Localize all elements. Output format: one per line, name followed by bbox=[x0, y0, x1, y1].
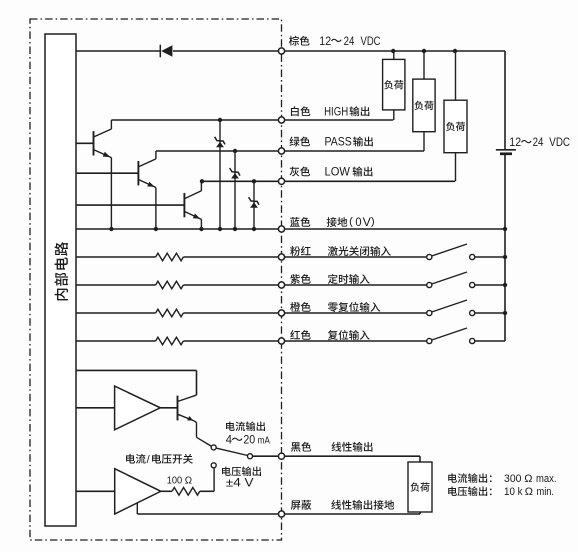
label 负荷 LOAD4 bbox=[410, 482, 429, 491]
label 橙色 零复位输入 bbox=[290, 302, 380, 312]
svg-text:min.: min. bbox=[537, 486, 555, 498]
switch S3 bbox=[427, 300, 505, 316]
label 电流输出 4~20 mA bbox=[226, 421, 270, 446]
load LOAD1 bbox=[383, 51, 405, 120]
battery B1 12-24VDC bbox=[496, 51, 516, 341]
wire U1 input bbox=[76, 407, 115, 409]
wire Q3 base bbox=[76, 204, 184, 206]
switch S2 bbox=[427, 272, 505, 288]
label 紫色 定时输入 bbox=[290, 274, 369, 284]
wire S5 pole to black terminal bbox=[253, 455, 282, 457]
svg-text:4: 4 bbox=[226, 435, 233, 447]
label 屏蔽 线性输出接地 bbox=[291, 500, 394, 510]
label note 电压输出: 10kohm min bbox=[448, 486, 554, 498]
label 电流/电压开关 bbox=[126, 454, 193, 466]
transistor Q2 bbox=[138, 151, 158, 231]
transistor Q4 bbox=[178, 395, 212, 446]
label 绿色 PASS输出 bbox=[290, 137, 373, 149]
label 负荷 LOAD3 bbox=[446, 122, 465, 131]
resistor R4 bbox=[156, 337, 184, 345]
label 棕色 12~24 VDC bbox=[289, 36, 381, 48]
svg-text:100: 100 bbox=[167, 475, 183, 486]
wire shield line bbox=[137, 513, 420, 515]
op-amp U2 bbox=[115, 469, 161, 514]
wire violet timing input line bbox=[76, 284, 427, 286]
node battery rail junctions bbox=[503, 227, 507, 315]
svg-text:V: V bbox=[363, 217, 372, 229]
zener diode ZD3 bbox=[249, 197, 259, 208]
diode D1 on brown line bbox=[160, 45, 172, 58]
switch S5 current/voltage bbox=[211, 445, 252, 468]
svg-text:12: 12 bbox=[319, 36, 331, 48]
svg-text:24: 24 bbox=[533, 137, 544, 149]
label 蓝色 接地(0V) bbox=[290, 217, 374, 229]
svg-text:VDC: VDC bbox=[549, 137, 570, 149]
node: load taps on brown line bbox=[391, 49, 457, 53]
load LOAD2 bbox=[413, 51, 435, 151]
label 负荷 LOAD2 bbox=[414, 101, 433, 110]
svg-text:PASS: PASS bbox=[325, 137, 353, 149]
svg-text:0: 0 bbox=[355, 217, 361, 229]
svg-text:24: 24 bbox=[344, 36, 355, 48]
label 红色 复位输入 bbox=[290, 330, 369, 340]
label battery 12~24 VDC bbox=[509, 137, 570, 149]
svg-text:12: 12 bbox=[509, 137, 521, 149]
wire blue 0V line bbox=[76, 228, 505, 230]
wire U2 ref tap to shield line bbox=[136, 503, 138, 514]
resistor R3 bbox=[156, 309, 184, 317]
resistor R5 100ohm bbox=[172, 488, 200, 496]
switch S4 bbox=[427, 328, 505, 344]
wire red reset input line bbox=[76, 340, 427, 342]
wire white HIGH output line bbox=[111, 119, 393, 121]
wire shield stub to load bbox=[419, 512, 421, 514]
label 内部电路 (internal circuit, vertical) bbox=[54, 242, 68, 300]
sensor outline dash-dot border bbox=[30, 19, 282, 540]
wire U2 input bbox=[76, 490, 115, 492]
label note 电流输出: 300ohm max bbox=[448, 473, 556, 485]
resistor R1 bbox=[156, 253, 184, 261]
svg-text:VDC: VDC bbox=[361, 36, 381, 48]
wire pink laser-off input line bbox=[76, 256, 427, 258]
label 100 ohm bbox=[167, 475, 192, 486]
load LOAD3 bbox=[444, 51, 467, 181]
wire Q2 base bbox=[76, 172, 138, 174]
svg-text:Ω: Ω bbox=[185, 475, 192, 486]
load LOAD4 linear output bbox=[408, 462, 432, 512]
op-amp U1 bbox=[115, 386, 161, 430]
switch S1 bbox=[427, 244, 505, 260]
label 灰色 LOW输出 bbox=[290, 167, 373, 179]
svg-text:LOW: LOW bbox=[325, 167, 351, 179]
wire brown +V line bbox=[76, 50, 505, 52]
label 粉红 激光关闭输入 bbox=[290, 246, 391, 256]
label 电压输出 ±4V bbox=[222, 466, 261, 489]
terminal pins on boundary bbox=[278, 48, 284, 517]
wire gray LOW output line bbox=[200, 179, 455, 183]
svg-text:/: / bbox=[147, 454, 151, 466]
svg-text:±4 V: ±4 V bbox=[226, 478, 254, 490]
transistor Q3 bbox=[184, 181, 203, 231]
svg-text:10 k: 10 k bbox=[504, 486, 523, 498]
transistor Q1 bbox=[94, 120, 114, 231]
svg-text:300: 300 bbox=[504, 473, 522, 485]
zener diode ZD1 bbox=[215, 137, 225, 148]
label 黑色 线性输出 bbox=[291, 442, 373, 452]
wire black linear output line right bbox=[282, 456, 421, 462]
wire zener ZD1 column bbox=[218, 118, 222, 231]
wire orange zero-reset input line bbox=[76, 312, 427, 314]
wire green PASS output line bbox=[156, 150, 424, 152]
svg-text:HIGH: HIGH bbox=[324, 106, 348, 118]
wire Q1 base bbox=[76, 142, 94, 144]
wire U1 feedback to Q4 collector bbox=[76, 370, 197, 395]
svg-text:20: 20 bbox=[243, 435, 255, 447]
svg-text:Ω: Ω bbox=[525, 486, 533, 498]
label 负荷 LOAD1 bbox=[384, 80, 403, 89]
wire U1 output to Q4 base bbox=[160, 407, 177, 409]
resistor R2 bbox=[156, 281, 184, 289]
wire U2 output through R5 to S5 bbox=[161, 468, 214, 492]
wire zener ZD2 column bbox=[233, 149, 237, 231]
wire zener ZD3 column bbox=[252, 181, 256, 231]
label 白色 HIGH输出 bbox=[291, 106, 369, 118]
svg-text:Ω: Ω bbox=[524, 473, 532, 485]
zener diode ZD2 bbox=[230, 168, 240, 179]
internal circuit box bbox=[45, 34, 76, 526]
svg-text:max.: max. bbox=[536, 473, 557, 485]
svg-text:mA: mA bbox=[258, 435, 270, 447]
